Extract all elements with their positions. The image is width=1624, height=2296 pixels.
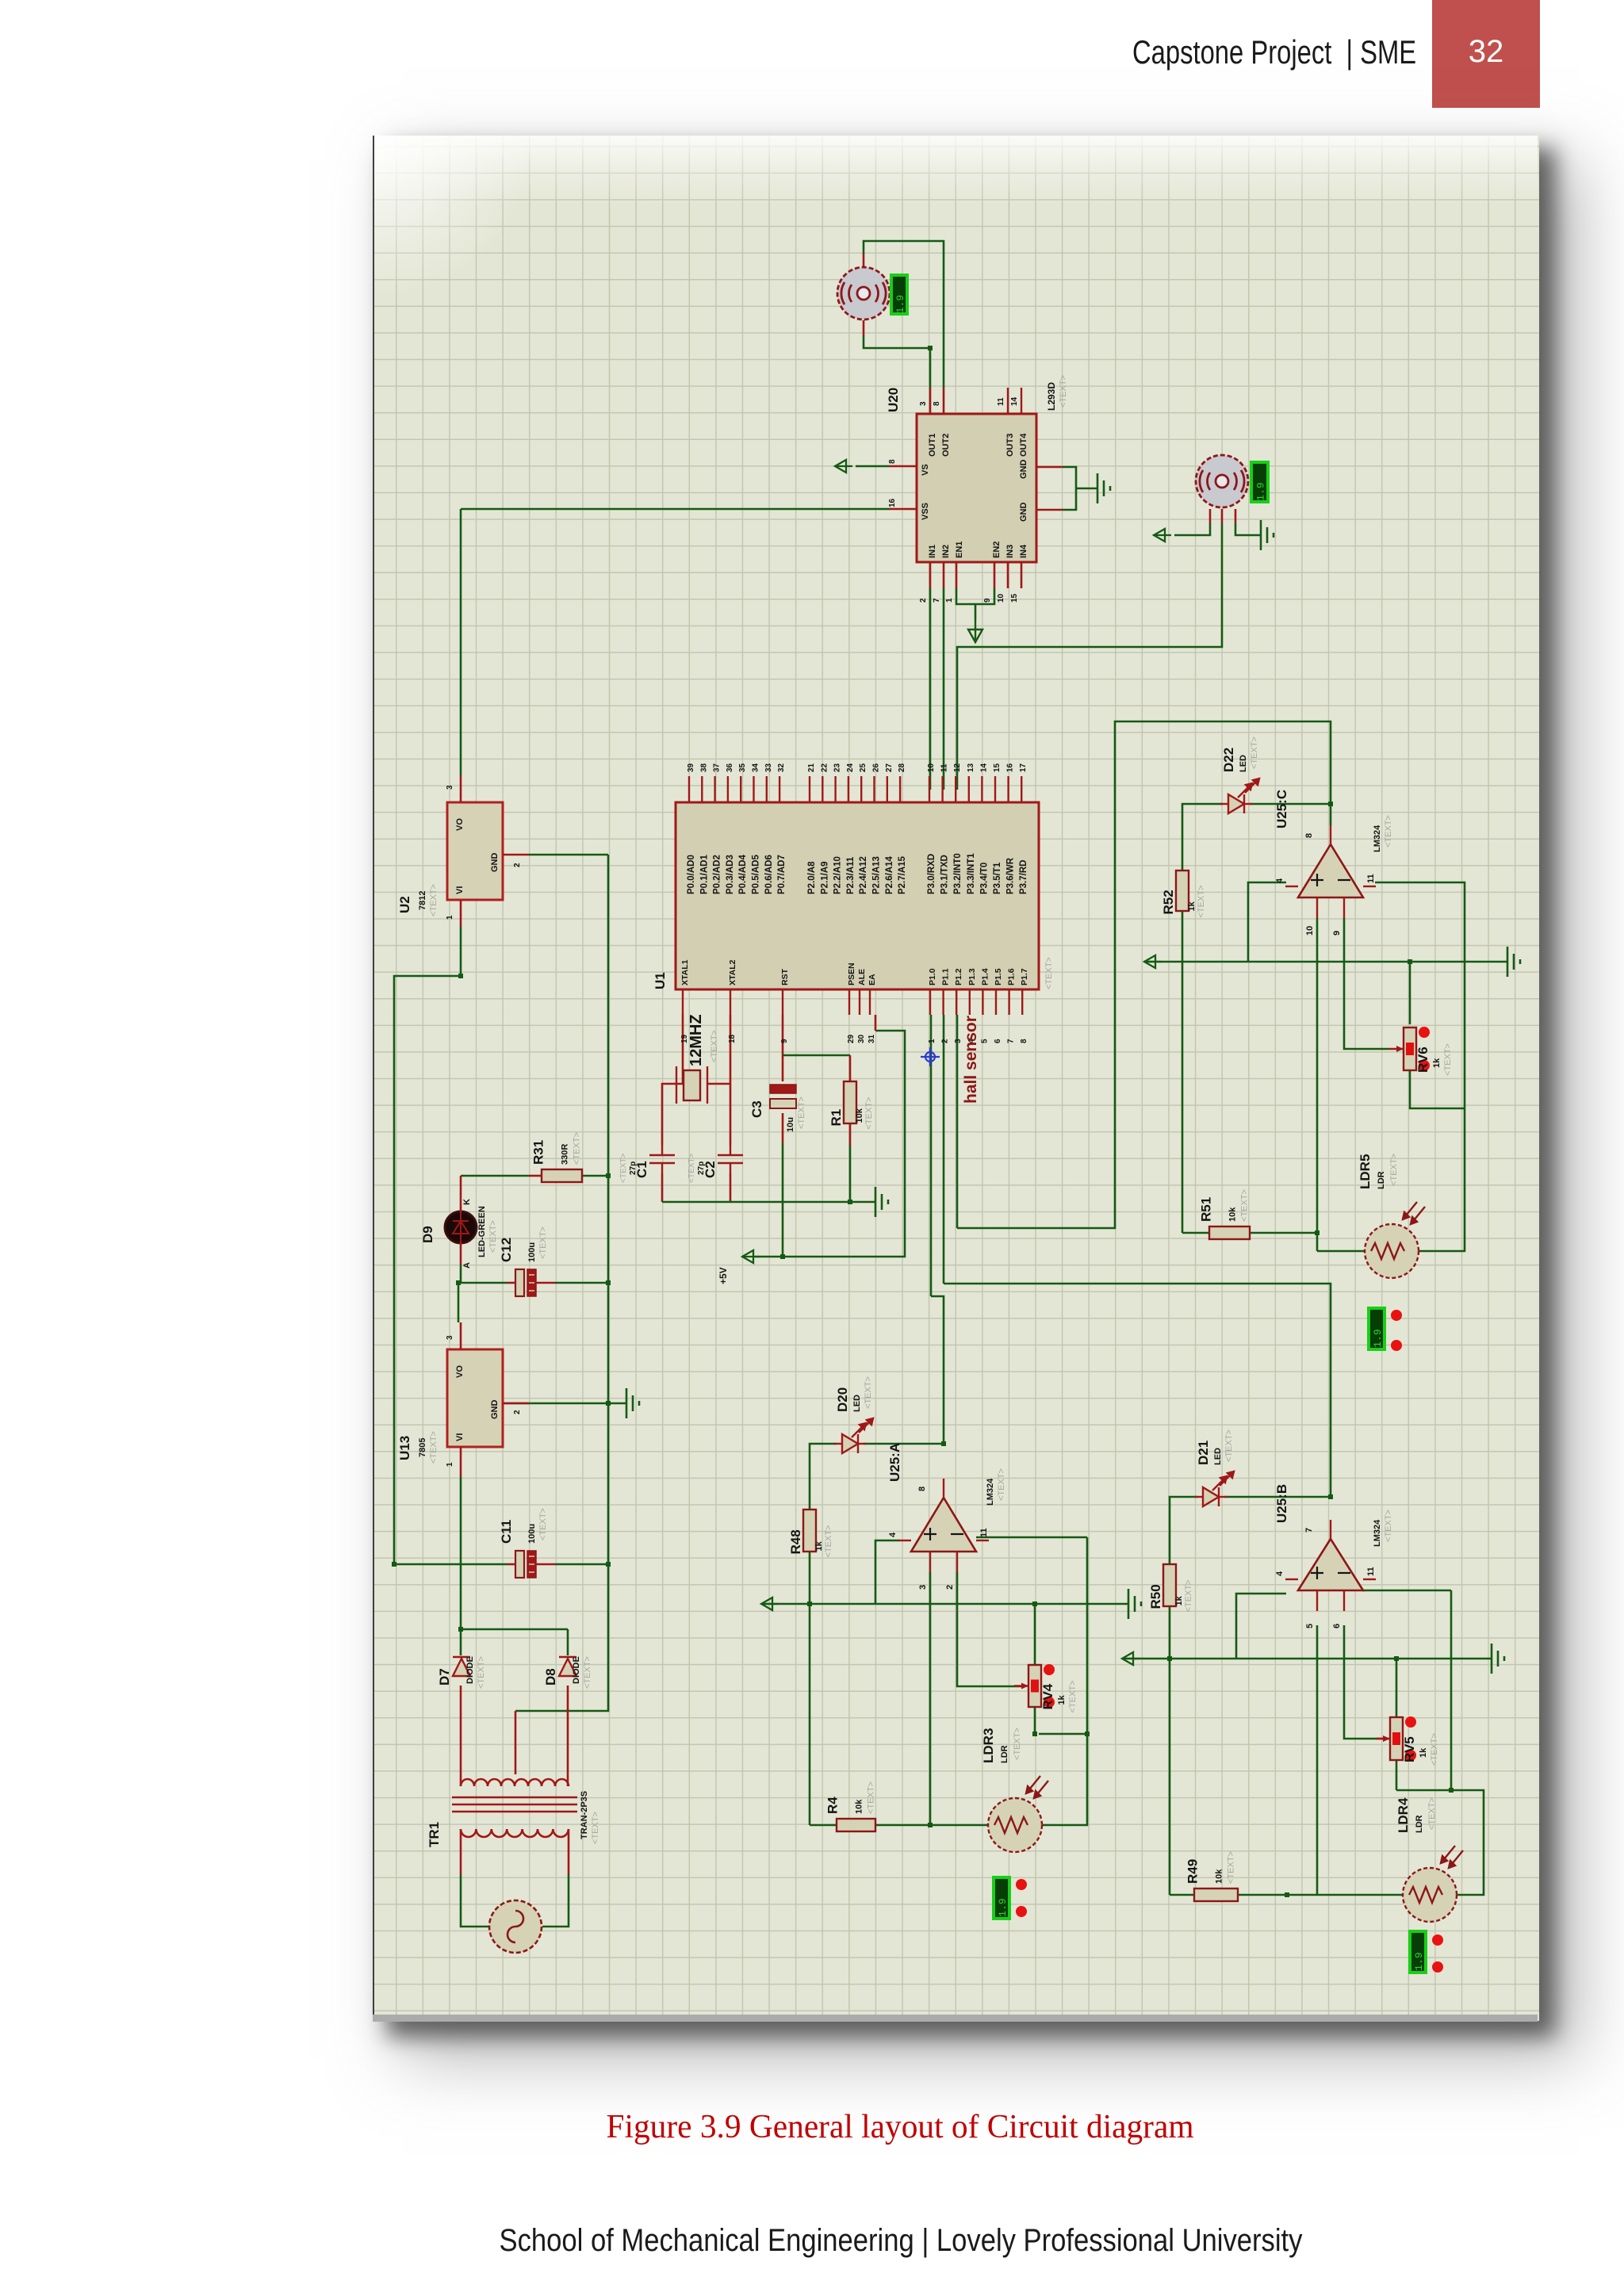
svg-text:DIODE: DIODE — [465, 1656, 475, 1684]
wire U20.VSS stub — [889, 508, 917, 511]
LDR LDR3 — [988, 1776, 1048, 1852]
svg-text:8: 8 — [888, 459, 897, 464]
wire to LDR3 left — [930, 1824, 988, 1827]
wire rail to U25:C pin4 — [1248, 882, 1286, 962]
svg-text:P0.1/AD1: P0.1/AD1 — [699, 855, 709, 894]
svg-text:XTAL2: XTAL2 — [728, 959, 737, 985]
U1 bottom pin 31 EA — [869, 989, 871, 1015]
wire P1.2 to U25:C out — [957, 721, 1331, 1228]
svg-text:3: 3 — [446, 785, 454, 790]
svg-text:1k: 1k — [1187, 901, 1197, 911]
wire TR1 primary right — [568, 1829, 570, 1874]
svg-text:<TEXT>: <TEXT> — [867, 1781, 876, 1814]
wire D22 to output node — [1250, 803, 1331, 806]
svg-text:GND: GND — [490, 853, 500, 873]
svg-text:P0.4/AD4: P0.4/AD4 — [738, 855, 748, 894]
svg-text:<TEXT>: <TEXT> — [1224, 1429, 1234, 1462]
svg-text:<TEXT>: <TEXT> — [619, 1154, 628, 1183]
U1 top pin 27 P2.6/A14 — [887, 776, 888, 802]
wire to ground arrow — [975, 604, 977, 620]
U1 top pin 39 P0.0/AD0 — [688, 776, 690, 802]
wire U2.GND stub — [503, 854, 529, 856]
U1 bottom pin 4 P1.3 — [969, 989, 971, 1015]
svg-text:P1.5: P1.5 — [994, 968, 1003, 985]
wire C2 top lead — [730, 1084, 732, 1145]
wire U25:B pin6 to RV5 wiper — [1344, 1625, 1386, 1739]
wire U20.VS to power — [856, 465, 889, 468]
svg-text:VO: VO — [455, 818, 465, 831]
svg-text:VS: VS — [921, 464, 930, 476]
ground near U20 — [1097, 473, 1110, 503]
svg-text:9: 9 — [780, 1039, 789, 1043]
LED D21 — [1195, 1471, 1234, 1506]
U1 top pin 24 P2.3/A11 — [848, 776, 849, 802]
svg-text:1k: 1k — [814, 1540, 824, 1551]
svg-text:<TEXT>: <TEXT> — [1197, 886, 1206, 918]
svg-text:P0.6/AD6: P0.6/AD6 — [764, 855, 774, 894]
wire U25:A pin2 to RV4 wiper — [957, 1572, 1025, 1686]
probe dot — [1016, 1906, 1027, 1917]
wire rail down to R4 — [809, 1604, 811, 1825]
svg-text:LDR: LDR — [1415, 1815, 1424, 1833]
svg-text:P2.1/A9: P2.1/A9 — [820, 861, 829, 894]
svg-text:R4: R4 — [825, 1797, 841, 1814]
svg-text:36: 36 — [726, 763, 734, 772]
U1 top pin 13 P3.3/INT1 — [968, 776, 970, 802]
svg-text:VI: VI — [455, 886, 465, 894]
wire EA stub — [875, 1015, 877, 1031]
wire U20 pin 14 stub — [1021, 388, 1022, 414]
power arrow U20.VS — [835, 460, 852, 473]
svg-text:12MHZ: 12MHZ — [688, 1014, 705, 1066]
potentiometer RV4 — [1014, 1664, 1078, 1713]
LED D22 — [1220, 779, 1259, 813]
wire motor2 left stub — [1209, 509, 1212, 523]
wire RST to C3 — [782, 1015, 784, 1081]
svg-text:P1.0: P1.0 — [928, 968, 937, 985]
svg-text:39: 39 — [687, 763, 695, 772]
svg-text:+5V: +5V — [718, 1267, 729, 1284]
svg-text:1: 1 — [446, 1462, 454, 1467]
svg-text:26: 26 — [872, 763, 881, 772]
svg-text:P0.0/AD0: P0.0/AD0 — [687, 855, 696, 894]
wire R1 top lead — [849, 1055, 852, 1081]
svg-text:<TEXT>: <TEXT> — [1427, 1797, 1437, 1830]
svg-text:EN2: EN2 — [992, 541, 1002, 558]
U1 top pin 25 P2.4/A12 — [860, 776, 862, 802]
svg-text:<TEXT>: <TEXT> — [429, 1431, 439, 1464]
ground near motor2 — [1261, 520, 1274, 550]
svg-text:U25:C: U25:C — [1274, 790, 1289, 828]
wire U20.VS stub — [889, 465, 917, 468]
wire feedback vertical U25:B — [1450, 1590, 1453, 1790]
svg-text:P0.5/AD5: P0.5/AD5 — [752, 855, 761, 894]
svg-text:ALE: ALE — [857, 969, 867, 985]
wire rail to U25:A pin4 — [875, 1540, 899, 1604]
U1 top pin 37 P0.2/AD2 — [714, 776, 715, 802]
wire mid rail U25:B — [1122, 1658, 1492, 1660]
svg-text:U2: U2 — [397, 896, 412, 913]
wire P1.2 down — [956, 1015, 959, 1228]
wire U20 bottom pin stub — [956, 562, 958, 588]
wire U20.VSS to U2.VO vertical — [460, 509, 462, 775]
wire C3/R1 top row — [783, 1054, 850, 1057]
svg-text:LDR: LDR — [1000, 1745, 1009, 1763]
wire feedback vertical U25:A — [1086, 1537, 1089, 1734]
svg-text:19: 19 — [680, 1034, 689, 1043]
wire C2 bottom lead — [730, 1173, 732, 1202]
svg-text:10: 10 — [1305, 926, 1315, 936]
junction — [1449, 1788, 1454, 1793]
svg-text:<TEXT>: <TEXT> — [1227, 1851, 1236, 1884]
junction — [848, 1200, 852, 1204]
wire P1.1 to U25:B out — [944, 1284, 1331, 1497]
wire U20.IN1 to U1 — [929, 588, 932, 790]
U1 bottom pin 2 P1.1 — [942, 989, 944, 1015]
svg-text:OUT4: OUT4 — [1019, 433, 1028, 457]
svg-text:<TEXT>: <TEXT> — [1250, 737, 1259, 769]
power arrow U25:A rail — [761, 1598, 779, 1610]
wire C11 row right — [555, 1563, 608, 1566]
U1 top pin 26 P2.5/A13 — [873, 776, 875, 802]
wire U13.VI stub — [460, 1447, 462, 1476]
svg-text:LM324: LM324 — [986, 1478, 995, 1506]
wire U20 pin OUT2 stub — [943, 388, 945, 414]
svg-text:IN4: IN4 — [1019, 544, 1028, 558]
wire rail to RV5 top — [1396, 1659, 1398, 1717]
junction — [606, 1173, 611, 1178]
svg-text:8: 8 — [917, 1487, 927, 1491]
U1 top pin 11 P3.1/TXD — [941, 776, 943, 802]
svg-text:27p: 27p — [629, 1161, 638, 1175]
IC U20 L293D — [886, 375, 1068, 603]
svg-text:<TEXT>: <TEXT> — [1068, 1681, 1078, 1713]
wire crystal left to C1 — [662, 1084, 683, 1145]
wire U20 bottom pin stub — [1007, 562, 1009, 588]
svg-text:P2.5/A13: P2.5/A13 — [872, 856, 882, 894]
svg-text:1: 1 — [928, 1039, 936, 1043]
U1 bottom pin 3 P1.2 — [956, 989, 957, 1015]
wire motor2 to power — [1174, 523, 1210, 535]
ground oscillator — [875, 1187, 888, 1217]
svg-text:<TEXT>: <TEXT> — [488, 1220, 498, 1253]
wire U13.VI down — [460, 1476, 462, 1629]
wire U20 bottom pin stub — [1021, 562, 1023, 588]
wire U25:B pin5 down — [1316, 1625, 1319, 1895]
svg-text:RV5: RV5 — [1402, 1736, 1417, 1762]
op-amp U25:B — [1274, 1484, 1393, 1628]
svg-text:R52: R52 — [1161, 890, 1176, 914]
svg-text:8: 8 — [933, 401, 941, 406]
svg-text:OUT3: OUT3 — [1005, 434, 1015, 457]
svg-text:4: 4 — [1275, 1571, 1285, 1576]
svg-text:D21: D21 — [1196, 1441, 1211, 1465]
wire C11 row left — [394, 1563, 507, 1566]
svg-text:<TEXT>: <TEXT> — [797, 1096, 806, 1129]
svg-text:<TEXT>: <TEXT> — [583, 1656, 592, 1689]
potentiometer RV5 — [1376, 1716, 1439, 1766]
svg-text:13: 13 — [967, 763, 975, 772]
wire R1 bottom lead — [849, 1123, 852, 1146]
U1 top pin 28 P2.7/A15 — [899, 776, 901, 802]
svg-text:9: 9 — [983, 598, 992, 603]
U1 top pin 34 P0.5/AD5 — [753, 776, 754, 802]
motor M1 — [837, 267, 890, 320]
svg-text:15: 15 — [1010, 593, 1019, 603]
svg-text:5: 5 — [1305, 1624, 1315, 1628]
wire P1.0 to U25:A out — [931, 1296, 944, 1444]
junction — [807, 1601, 812, 1606]
ground U25:B — [1492, 1644, 1504, 1674]
svg-text:3: 3 — [446, 1335, 454, 1340]
svg-text:<TEXT>: <TEXT> — [710, 1030, 719, 1062]
wire R51 left lead — [1182, 1232, 1209, 1234]
svg-text:D22: D22 — [1221, 748, 1236, 772]
wire rail to RV4 top — [1034, 1604, 1036, 1665]
svg-text:EN1: EN1 — [955, 541, 964, 558]
svg-text:U25:B: U25:B — [1274, 1484, 1289, 1523]
U1 bottom pin 5 P1.4 — [982, 989, 983, 1015]
svg-text:P3.4/T0: P3.4/T0 — [979, 863, 989, 894]
wire U2.VI down — [460, 927, 462, 976]
svg-text:LED: LED — [1213, 1448, 1223, 1465]
svg-text:EA: EA — [868, 974, 877, 985]
wire U25:B base right to feedback — [1362, 1590, 1451, 1592]
wire R4 right lead — [875, 1824, 930, 1827]
wire motor2 to U1 — [957, 523, 1222, 790]
probe dot — [1432, 1934, 1443, 1946]
svg-text:P0.2/AD2: P0.2/AD2 — [713, 855, 722, 894]
junction — [928, 346, 933, 350]
wire U25:C pin10 down — [1316, 918, 1319, 1233]
svg-text:24: 24 — [846, 763, 855, 772]
wire R31 to ground bus — [582, 1175, 608, 1177]
voltage display — [1251, 462, 1268, 502]
svg-text:35: 35 — [738, 763, 747, 772]
wire D21 to output node — [1224, 1496, 1331, 1498]
svg-text:18: 18 — [728, 1034, 737, 1043]
wire rail to U25:B pin4 — [1236, 1594, 1286, 1659]
svg-text:P1.7: P1.7 — [1020, 968, 1029, 985]
svg-text:<TEXT>: <TEXT> — [688, 1154, 696, 1183]
capacitor C1 — [649, 1145, 675, 1173]
svg-text:P2.6/A14: P2.6/A14 — [885, 855, 894, 894]
svg-text:DIODE: DIODE — [572, 1656, 581, 1684]
svg-text:3: 3 — [919, 401, 928, 406]
wire D9 anode lead — [460, 1242, 462, 1265]
wire U20 bottom pin stub — [994, 562, 996, 588]
wire D20 anode to R48 — [810, 1444, 837, 1510]
wire U20.IN2 to U1 — [943, 588, 945, 790]
wire center tap to ground bus — [515, 1564, 608, 1711]
svg-text:VI: VI — [455, 1433, 465, 1441]
junction — [392, 1562, 396, 1567]
svg-text:R49: R49 — [1185, 1859, 1201, 1884]
svg-text:GND: GND — [1019, 503, 1028, 522]
svg-text:R48: R48 — [788, 1529, 803, 1554]
wire R48 bottom — [809, 1552, 811, 1604]
svg-text:P3.5/T1: P3.5/T1 — [993, 862, 1002, 894]
wire LDR5 to feedback — [1375, 882, 1465, 1251]
probe dot — [1391, 1310, 1402, 1321]
wire C11 right stub — [534, 1563, 555, 1566]
junction — [780, 1254, 785, 1259]
wire rail to RV6 — [1409, 962, 1411, 1024]
svg-text:15: 15 — [993, 763, 1002, 772]
svg-text:LDR: LDR — [1377, 1171, 1386, 1189]
power arrow U25:B rail — [1122, 1652, 1139, 1665]
svg-text:10: 10 — [927, 763, 936, 772]
junction — [941, 1441, 946, 1446]
svg-text:P1.4: P1.4 — [980, 968, 990, 985]
resistor R48 — [788, 1510, 833, 1558]
wire D9.K to R31 — [461, 1175, 529, 1177]
wire P1.1 down — [943, 1015, 945, 1284]
wire motor2 bottom stub — [1221, 509, 1224, 523]
wire to LDR4 left — [1317, 1894, 1403, 1896]
svg-text:2: 2 — [941, 1039, 950, 1043]
wire U25:A base right to feedback — [976, 1536, 1087, 1539]
power +5V — [742, 1250, 760, 1263]
wire C12 to ground bus — [555, 1282, 608, 1284]
svg-text:7812: 7812 — [418, 891, 427, 910]
svg-text:<TEXT>: <TEXT> — [1384, 1510, 1393, 1542]
U1 bottom pin 1 P1.0 — [929, 989, 931, 1015]
wire R49 left lead — [1170, 1894, 1194, 1896]
wire C11 left stub — [507, 1563, 515, 1566]
voltage regulator U13 7805 — [397, 1335, 522, 1467]
wire motor2 right stub — [1235, 509, 1237, 523]
wire C3 to +5V row — [782, 1143, 784, 1257]
wire ground bus vertical — [607, 855, 610, 1564]
svg-text:IN2: IN2 — [941, 545, 951, 558]
wire motor2 to ground — [1235, 523, 1261, 535]
svg-text:C3: C3 — [749, 1100, 764, 1118]
wire U13.VO stub — [460, 1322, 462, 1349]
svg-text:27p: 27p — [697, 1161, 706, 1175]
U1 top pin 15 P3.5/T1 — [994, 776, 996, 802]
wire 12V rail left — [394, 976, 461, 1564]
svg-text:LDR3: LDR3 — [981, 1728, 996, 1763]
svg-text:1: 1 — [446, 915, 454, 920]
junction — [1394, 1656, 1399, 1661]
svg-text:K: K — [462, 1199, 472, 1205]
svg-text:RV4: RV4 — [1040, 1683, 1055, 1709]
svg-text:D8: D8 — [543, 1668, 558, 1686]
svg-text:22: 22 — [820, 763, 829, 772]
svg-text:R1: R1 — [829, 1109, 844, 1127]
svg-text:P2.7/A15: P2.7/A15 — [898, 855, 907, 894]
svg-text:<TEXT>: <TEXT> — [824, 1525, 833, 1558]
svg-text:L293D: L293D — [1046, 382, 1057, 411]
resistor R1 — [829, 1081, 874, 1130]
wire to LDR5 left — [1317, 1250, 1365, 1253]
origin marker — [921, 1047, 940, 1066]
diode D8 — [559, 1657, 576, 1676]
svg-text:7: 7 — [1007, 1039, 1016, 1043]
svg-text:32: 32 — [777, 763, 786, 772]
voltage display — [1369, 1308, 1385, 1349]
wire U20 pin OUT1 stub — [929, 388, 932, 414]
wire XTAL1 lead — [682, 1015, 684, 1084]
svg-text:7: 7 — [933, 598, 941, 603]
wire D9 cathode lead — [460, 1176, 462, 1212]
op-amp U25:C — [1274, 790, 1393, 936]
wire R1 to ground row — [849, 1146, 852, 1202]
svg-text:GND: GND — [490, 1400, 500, 1420]
wire motor1 top to U20.OUT2 — [864, 241, 944, 388]
U1 top pin 35 P0.4/AD4 — [740, 776, 741, 802]
svg-text:<TEXT>: <TEXT> — [1443, 1043, 1453, 1076]
svg-text:7: 7 — [1304, 1528, 1314, 1533]
svg-text:P2.2/A10: P2.2/A10 — [833, 856, 843, 894]
U1 top pin 22 P2.1/A9 — [822, 776, 823, 802]
svg-text:<TEXT>: <TEXT> — [429, 884, 439, 916]
wire D9.A row left — [458, 1282, 507, 1284]
svg-text:LM324: LM324 — [1373, 1519, 1382, 1547]
wire TR1 primary left — [460, 1829, 462, 1874]
svg-text:GND: GND — [1019, 460, 1028, 480]
U1 bottom pin 19 XTAL1 — [682, 989, 684, 1015]
LDR LDR5 — [1365, 1202, 1425, 1278]
svg-text:1.9: 1.9 — [894, 295, 906, 313]
svg-text:11: 11 — [1366, 1567, 1376, 1576]
svg-text:<TEXT>: <TEXT> — [1184, 1580, 1193, 1613]
wire C1 bottom lead — [661, 1173, 664, 1202]
svg-text:D20: D20 — [835, 1387, 850, 1412]
junction — [456, 1280, 461, 1285]
svg-text:29: 29 — [847, 1034, 856, 1043]
svg-text:1.9: 1.9 — [997, 1898, 1009, 1916]
svg-text:10: 10 — [997, 593, 1005, 603]
svg-text:R50: R50 — [1148, 1584, 1163, 1609]
svg-text:P2.0/A8: P2.0/A8 — [807, 861, 817, 894]
wire P1.0 down — [930, 1015, 933, 1296]
junction — [1408, 959, 1412, 964]
svg-text:PSEN: PSEN — [847, 962, 856, 985]
voltage display — [1410, 1931, 1426, 1973]
U1 bottom pin 30 ALE — [859, 989, 860, 1015]
wire C12 left stub — [507, 1282, 515, 1284]
wire D21 anode to R50 — [1170, 1497, 1197, 1564]
svg-text:1.9: 1.9 — [1255, 482, 1267, 500]
transformer TR1 — [452, 1778, 577, 1837]
junction — [1328, 802, 1333, 806]
svg-text:R51: R51 — [1199, 1197, 1214, 1222]
svg-text:<TEXT>: <TEXT> — [997, 1468, 1006, 1501]
svg-text:330R: 330R — [561, 1144, 570, 1165]
wire transformer center tap — [515, 1711, 517, 1774]
capacitor C11 — [499, 1508, 548, 1578]
wire rectifier top row — [461, 1628, 568, 1631]
svg-text:LED: LED — [1239, 755, 1248, 772]
svg-text:1.9: 1.9 — [1413, 1952, 1425, 1970]
svg-text:21: 21 — [807, 763, 816, 772]
junction — [1328, 1494, 1333, 1499]
potentiometer RV6 — [1389, 1027, 1453, 1076]
svg-text:4: 4 — [888, 1532, 898, 1537]
svg-text:D9: D9 — [420, 1226, 435, 1243]
ground below U20 — [968, 620, 982, 642]
wire U20 bottom pin stub — [929, 562, 932, 588]
U1 bottom pin 7 P1.6 — [1008, 989, 1009, 1015]
svg-text:hall sensor: hall sensor — [962, 1016, 980, 1104]
svg-text:<TEXT>: <TEXT> — [538, 1508, 548, 1540]
U1 bottom pin 8 P1.7 — [1021, 989, 1023, 1015]
wire to ground — [1076, 488, 1097, 490]
wire D7 to TR1 — [460, 1686, 462, 1778]
svg-text:25: 25 — [859, 763, 868, 772]
